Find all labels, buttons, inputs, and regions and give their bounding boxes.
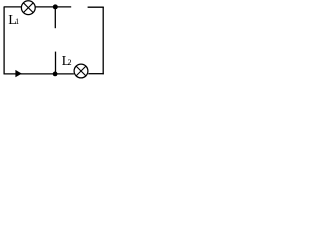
junction: bottom node (dot) (53, 72, 58, 77)
current direction arrow on bottom wire (15, 70, 21, 77)
svg-text:L1: L1 (8, 13, 19, 28)
wire: bottom-left horizontal (left corner to lamp L2) (4, 73, 74, 75)
lamp L1 (circle with cross) (21, 1, 35, 15)
svg-text:L2: L2 (62, 54, 72, 69)
wire: right vertical (102, 7, 104, 74)
lamp L2 (circle with cross) (74, 64, 88, 78)
junction: top node (dot) (53, 4, 58, 9)
wire: top middle horizontal (lamp L1 to open switch gap) (35, 6, 71, 8)
wire: middle branch upper segment (top node down to gap) (54, 7, 56, 28)
wire: left vertical (3, 7, 5, 74)
wire: bottom-right horizontal (lamp L2 to right corner) (88, 73, 104, 75)
wire: middle branch lower segment (gap down to bottom node) (55, 52, 57, 74)
wire: top-left horizontal (left corner to lamp L1) (4, 6, 22, 8)
wire: top-right horizontal (open switch gap to right corner) (88, 6, 104, 8)
